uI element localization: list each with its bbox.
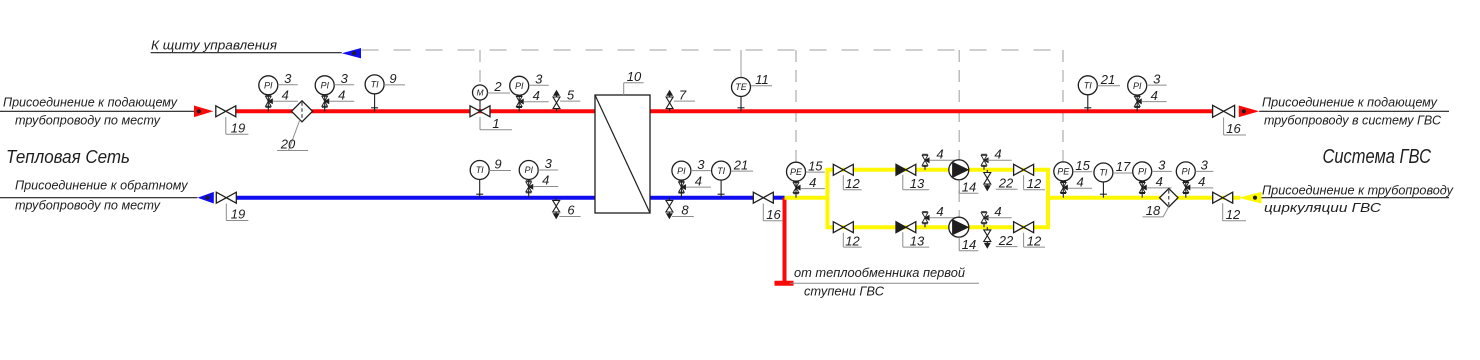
svg-text:16: 16 [766, 207, 781, 222]
wire: pump header left riser [826, 168, 830, 229]
wire: signal drop to sensor TE 11 [740, 50, 742, 77]
svg-text:PI: PI [1138, 167, 1147, 177]
pump 14 (upper branch) [949, 160, 969, 180]
filter 20 [292, 101, 313, 122]
thermometer TI 21 (return) [712, 161, 731, 198]
svg-text:Присоединение к трубопроводу: Присоединение к трубопроводу [1262, 183, 1454, 198]
labels 15/4 of outlet PE [1068, 158, 1092, 190]
wire: circulation pipe to outlet [1048, 196, 1240, 200]
labels 3/4 of first circulation PI [1147, 158, 1172, 190]
label: from first stage heat exchanger, line 1 [790, 265, 979, 283]
label: connection to circulation piping, line 2 [1264, 200, 1382, 215]
svg-text:TI: TI [476, 165, 484, 175]
wire: return pipe (valve to heat exchanger) [236, 196, 595, 200]
wire: return pipe (heat exchanger to valve 16) [650, 196, 753, 200]
label 4 (lower, after pump) [987, 204, 1012, 219]
label 22 of lower drain [996, 233, 1018, 248]
valve 12 (lower branch inlet) [833, 222, 853, 233]
check valve 13 (lower branch) [896, 222, 916, 233]
pressure gauge PI 3 (supply outlet) [1128, 76, 1147, 111]
svg-text:16: 16 [1226, 121, 1241, 136]
svg-text:20: 20 [280, 137, 296, 152]
wire: lower pump branch pipe [828, 225, 1049, 229]
svg-text:3: 3 [697, 157, 705, 172]
svg-text:22: 22 [998, 233, 1014, 248]
svg-text:4: 4 [1076, 175, 1083, 190]
label 12 of lower outlet valve [1024, 233, 1045, 249]
svg-text:19: 19 [231, 120, 245, 135]
svg-text:трубопроводу в систему ГВС: трубопроводу в систему ГВС [1264, 113, 1442, 128]
wire: return pipe stub after valve 16 [773, 196, 784, 200]
pressure sensor PE 15 (pump inlet) [787, 162, 806, 198]
svg-text:от теплообменника первой: от теплообменника первой [794, 265, 965, 280]
labels 3/4 of supply outlet PI [1142, 71, 1167, 103]
label 10 leader [624, 69, 644, 95]
label 16 leader (supply) [1224, 118, 1246, 137]
label 13 of upper check valve [903, 175, 929, 191]
svg-text:PI: PI [320, 81, 329, 91]
label: connection to supply piping (right), line 1 [1262, 95, 1438, 110]
label: connection to supply piping (left), line 2 [15, 113, 161, 128]
valve 12 (circulation outlet) [1213, 192, 1233, 203]
svg-text:21: 21 [733, 157, 748, 172]
svg-text:Система ГВС: Система ГВС [1323, 146, 1432, 168]
svg-text:Тепловая Сеть: Тепловая Сеть [6, 146, 130, 167]
wire: dashed signal drop to sensor PE 15 (right) [1062, 50, 1064, 162]
svg-text:6: 6 [567, 203, 575, 218]
svg-text:4: 4 [1156, 174, 1163, 189]
svg-text:циркуляции ГВС: циркуляции ГВС [1264, 200, 1382, 215]
svg-text:12: 12 [845, 233, 860, 248]
node: signal arrow to control panel [151, 48, 361, 58]
svg-text:4: 4 [282, 88, 289, 103]
labels 3/4 of second circulation PI [1190, 158, 1213, 190]
label 12 of upper outlet valve [1024, 175, 1045, 191]
label 14 of lower pump [959, 237, 978, 252]
wire: pump header right riser [1046, 168, 1050, 229]
wire: supply pipe (heat exchanger to GVS system) [650, 109, 1213, 113]
svg-text:3: 3 [284, 71, 292, 86]
svg-text:3: 3 [1201, 158, 1209, 173]
svg-text:14: 14 [962, 180, 976, 195]
pressure gauge PI 3 (return, after HX) [672, 161, 691, 198]
label 9 of supply TI [384, 71, 405, 86]
svg-text:3: 3 [1158, 158, 1166, 173]
svg-text:К щиту управления: К щиту управления [151, 38, 277, 53]
node: circulation inlet flow arrow [1238, 192, 1261, 204]
labels 15/4 of inlet PE [801, 158, 825, 190]
label 14 of upper pump [959, 180, 978, 195]
label 12 of circulation outlet valve [1223, 203, 1246, 222]
svg-text:ступени ГВС: ступени ГВС [804, 284, 885, 299]
pressure gauge PI 3 (circulation, second) [1176, 162, 1195, 198]
drain valve 8 [666, 198, 673, 219]
pressure gauge PI 3 (supply, first) [259, 76, 278, 112]
air vent 5 [553, 90, 560, 111]
labels 3/4 of second supply PI [329, 71, 354, 103]
thermometer TI 21 (supply outlet) [1078, 76, 1097, 112]
svg-text:PI: PI [677, 166, 686, 176]
svg-text:12: 12 [1027, 233, 1042, 248]
label 13 of lower check valve [903, 232, 929, 248]
label: connection to supply piping (right), line 2 [1264, 113, 1442, 128]
svg-text:22: 22 [998, 175, 1014, 190]
label: to control panel [151, 38, 277, 53]
valve 19 (return) [216, 192, 236, 203]
gauge cock 4 (upper, before pump) [922, 154, 929, 170]
labels 3/4 of PI after control valve [524, 72, 549, 104]
heat exchanger 10 [595, 95, 650, 213]
valve 19 (supply inlet) [216, 106, 236, 117]
temperature sensor TE 11 [732, 78, 751, 112]
valve 12 (upper branch inlet) [833, 164, 853, 175]
svg-text:PI: PI [1182, 167, 1191, 177]
svg-text:PI: PI [515, 81, 524, 91]
gauge cock 4 (upper, after pump) [981, 154, 988, 170]
gauge cock 4 (lower, after pump) [981, 212, 988, 228]
svg-text:11: 11 [755, 72, 769, 87]
svg-text:7: 7 [679, 87, 687, 102]
pressure gauge PI 3 (return, before HX) [519, 161, 538, 198]
label 7 of air vent [674, 87, 695, 102]
pump 14 (lower branch) [949, 217, 969, 237]
label 4 (lower, before pump) [929, 204, 955, 219]
svg-text:PI: PI [524, 165, 533, 175]
svg-text:трубопроводу по месту: трубопроводу по месту [15, 197, 161, 212]
svg-text:Присоединение к обратному: Присоединение к обратному [15, 178, 189, 193]
label 1 leader [480, 116, 512, 131]
wire: dashed signal trunk to control panel [362, 49, 1064, 51]
labels 3/4 of return PI [533, 156, 558, 188]
label 8 of drain [672, 203, 694, 218]
label 20 leader [277, 120, 308, 152]
label 2 of actuator [488, 79, 511, 94]
svg-text:12: 12 [845, 176, 860, 191]
svg-text:TE: TE [735, 82, 747, 92]
svg-text:14: 14 [962, 237, 976, 252]
wire: external supply line under right text [1259, 110, 1449, 112]
pressure sensor PE 15 (pump outlet) [1054, 162, 1073, 198]
svg-text:13: 13 [910, 176, 925, 191]
node: supply outlet flow arrow [1239, 106, 1259, 118]
svg-text:трубопроводу по месту: трубопроводу по месту [15, 113, 161, 128]
svg-text:TI: TI [371, 80, 379, 90]
label 9 of return TI [489, 157, 511, 172]
wire: riser from first-stage heat exchanger (red) [783, 198, 787, 283]
svg-text:3: 3 [1153, 71, 1161, 86]
label: GVS system title [1323, 146, 1432, 168]
labels 3/4 of PI after HX [686, 157, 711, 189]
svg-text:4: 4 [1198, 174, 1205, 189]
label: connection to return piping (left), line 2 [15, 197, 161, 212]
svg-text:3: 3 [341, 71, 349, 86]
wire: supply pipe (heating network to heat exchanger) [236, 109, 595, 113]
label 17 of circulation TI [1113, 159, 1136, 174]
svg-text:18: 18 [1146, 203, 1161, 218]
wire: external return stub (left) [0, 197, 198, 199]
pressure gauge PI 3 (supply, second) [315, 76, 334, 112]
label: connection to return piping (left), line 1 [15, 178, 189, 193]
svg-text:15: 15 [808, 158, 823, 173]
label: connection to circulation piping, line 1 [1262, 183, 1454, 198]
svg-text:PI: PI [264, 81, 273, 91]
svg-text:1: 1 [492, 116, 499, 131]
label 12 of upper inlet valve [843, 175, 861, 191]
label 6 of drain [559, 203, 580, 218]
node: supply inlet flow arrow [194, 106, 213, 118]
label: from first stage heat exchanger, line 2 [804, 284, 885, 299]
label 12 of lower inlet valve [843, 233, 861, 249]
svg-text:M: M [476, 88, 484, 98]
svg-text:TI: TI [1084, 81, 1092, 91]
svg-text:4: 4 [338, 88, 345, 103]
pressure gauge PI 3 (circulation, first) [1133, 162, 1152, 198]
wire: circulation pipe to pump header [785, 196, 828, 200]
svg-text:PI: PI [1133, 81, 1142, 91]
filter 18 [1160, 189, 1178, 207]
drain valve 22 (upper branch) [984, 170, 991, 191]
svg-text:8: 8 [681, 203, 689, 218]
labels 3/4 of first supply PI [273, 71, 298, 103]
thermometer TI 17 (circulation) [1094, 163, 1113, 198]
drain valve 22 (lower branch) [984, 227, 991, 248]
thermometer TI 9 (return) [470, 161, 489, 198]
valve 12 (upper branch outlet) [1014, 164, 1034, 175]
control valve 1 [470, 106, 490, 117]
svg-text:4: 4 [1151, 88, 1158, 103]
svg-text:19: 19 [231, 207, 245, 222]
label: heating network title [6, 146, 130, 167]
label 11 of TE [751, 72, 772, 87]
svg-text:4: 4 [936, 204, 943, 219]
wire: upper pump branch pipe [828, 168, 1049, 172]
svg-text:TI: TI [717, 166, 725, 176]
thermometer TI 9 (supply) [365, 75, 384, 111]
svg-text:2: 2 [493, 79, 502, 94]
label 22 of upper drain [996, 175, 1018, 190]
label: connection to supply piping (left), line 1 [3, 95, 178, 110]
svg-text:4: 4 [994, 147, 1001, 162]
svg-text:5: 5 [567, 87, 575, 102]
wire: dashed signal drop to motor valve M [479, 50, 481, 85]
label 16 leader (return) [763, 204, 783, 223]
gauge cock 4 (lower, before pump) [922, 212, 929, 228]
label 19 leader [226, 117, 249, 135]
svg-text:17: 17 [1116, 159, 1131, 174]
check valve 13 (upper branch) [896, 164, 916, 175]
svg-text:3: 3 [545, 156, 553, 171]
svg-text:4: 4 [809, 175, 816, 190]
drain valve 6 [553, 198, 560, 219]
svg-text:4: 4 [542, 173, 549, 188]
svg-text:PE: PE [790, 167, 803, 177]
svg-text:3: 3 [535, 72, 543, 87]
label 5 of air vent [560, 87, 580, 102]
node: return outlet flow arrow [198, 192, 214, 204]
svg-text:10: 10 [627, 69, 642, 84]
svg-text:4: 4 [994, 204, 1001, 219]
label 21 of supply outlet TI [1097, 72, 1120, 87]
valve 16 (return) [753, 192, 773, 203]
svg-text:4: 4 [533, 88, 540, 103]
svg-text:Присоединение к подающему: Присоединение к подающему [1262, 95, 1438, 110]
svg-text:9: 9 [494, 157, 501, 172]
svg-text:Присоединение к подающему: Присоединение к подающему [3, 95, 178, 110]
actuator M of control valve [473, 85, 488, 111]
svg-text:4: 4 [695, 173, 702, 188]
svg-text:12: 12 [1027, 176, 1042, 191]
label 21 of return TI [731, 157, 753, 172]
wire: external supply stub (left) [0, 110, 194, 112]
svg-text:12: 12 [1226, 207, 1241, 222]
wire: first-stage connection end bar [775, 281, 794, 286]
label 18 leader [1143, 203, 1169, 218]
label 4 (upper, before pump) [929, 147, 955, 162]
wire: dashed signal drop to pumps 14 [958, 50, 960, 217]
svg-text:9: 9 [389, 71, 396, 86]
label 4 (upper, after pump) [987, 147, 1012, 162]
svg-text:15: 15 [1075, 158, 1090, 173]
wire: external circulation line under right text [1262, 197, 1450, 199]
svg-text:PE: PE [1057, 167, 1070, 177]
svg-text:TI: TI [1099, 168, 1107, 178]
svg-text:13: 13 [910, 233, 925, 248]
pressure gauge PI 3 (after control valve) [510, 76, 529, 111]
svg-text:4: 4 [936, 147, 943, 162]
svg-text:21: 21 [1100, 72, 1115, 87]
label 19 leader (return) [226, 204, 248, 222]
air vent 7 [666, 90, 673, 111]
wire: dashed signal drop to sensor PE 15 (left) [795, 50, 797, 162]
valve 16 (supply outlet) [1213, 105, 1235, 117]
valve 12 (lower branch outlet) [1014, 222, 1034, 233]
